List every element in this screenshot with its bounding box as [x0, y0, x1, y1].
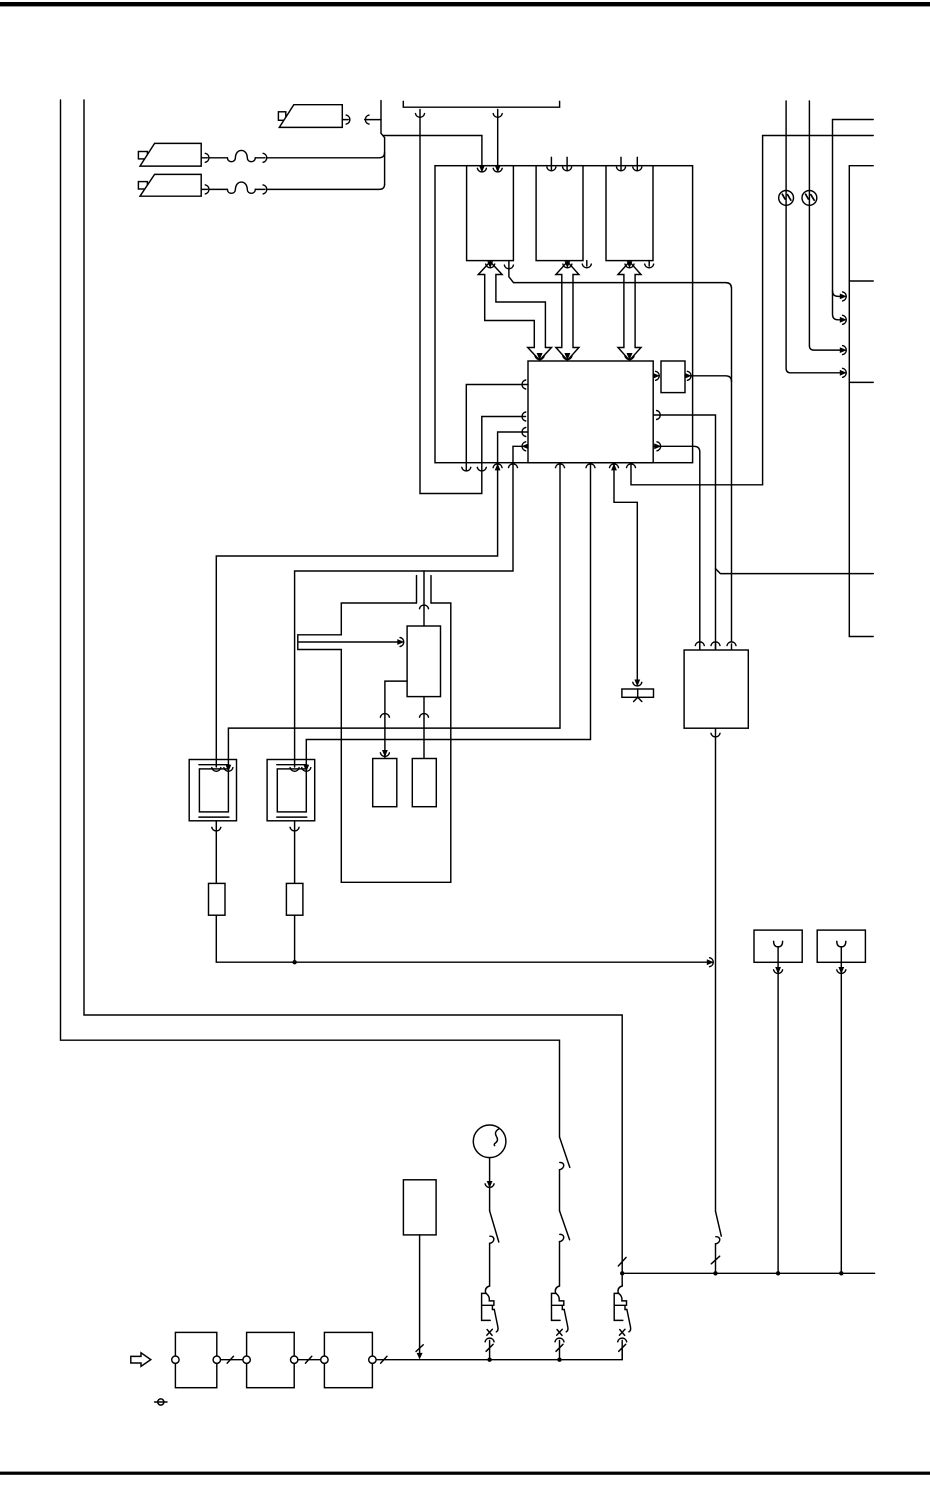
junction dots on ground bus: [487, 1358, 491, 1362]
wire: terminal 2 to lower bus: [840, 947, 842, 1273]
branch jog to page edge connector: [716, 569, 874, 574]
wire from horn H1: [210, 157, 228, 159]
wire: left rail 1 (battery feed, runs to ignition switch column): [61, 100, 560, 1137]
control cluster container: [435, 166, 693, 463]
bus arrow cell2 to ECU (hollow): [556, 262, 579, 361]
arrow into relay R1 pin b: [224, 763, 233, 770]
arrow on magneto wire: [485, 1181, 494, 1188]
fuse box cell 2: [536, 166, 583, 261]
horn H3 output arrow: [342, 119, 348, 121]
connector arrow at ECU right pin B: [654, 442, 661, 451]
alternator container with cable gland tongue and top chimney: [298, 603, 451, 882]
junction box J1: [175, 1332, 216, 1387]
arrow lock body wire onto ground bus: [417, 1353, 423, 1360]
wire: resistor 2 to common return: [294, 915, 296, 962]
ECU aux module box: [661, 361, 685, 393]
arrow on terminal 2 wire: [837, 967, 846, 974]
wire: terminal 1 to lower bus: [777, 947, 779, 1273]
arrow lamp L1 wire into instrument box: [840, 368, 847, 377]
arrow ECU to aux module: [653, 375, 656, 377]
stub output arrow below cell 2: [586, 261, 588, 266]
horn H1 output arrow: [201, 157, 207, 159]
arrows into relay R1 top (redrawn over fill): [216, 760, 228, 767]
arrow into terminal bar: [633, 680, 642, 687]
arrow into relay R2 pin b: [302, 763, 311, 770]
branch arrow into instrument box (upper): [833, 291, 842, 297]
wire: starter column junction to breaker 3: [621, 1273, 623, 1286]
antenna terminal block 1: [754, 930, 802, 962]
ground bus main run to starter column: [376, 1350, 622, 1360]
ECU main box: [528, 361, 653, 463]
arrows into fuse box cell 1 (redrawn over fill): [482, 166, 498, 171]
wire: resistor 1 to common return: [216, 915, 711, 962]
ballast resistor 1: [209, 883, 226, 915]
wire: ECU bottom pin 2 to relay R2 pin b: [306, 463, 590, 766]
boundary arrow ECU bottom pin 4: [627, 464, 636, 468]
switch S1 contact: [490, 1236, 494, 1243]
wire aux module output to harness drop: [685, 376, 732, 382]
page bottom border rule: [0, 1472, 930, 1475]
horn H2 body: [140, 174, 201, 196]
boundary arrow at container top (chimney): [420, 605, 429, 609]
arrow into regulator left: [397, 638, 404, 647]
stator resistor 2: [412, 759, 436, 807]
horn H3 connector tab: [278, 112, 285, 121]
wire from horn H2: [210, 188, 228, 190]
connector arrow at ECU left pin 3: [522, 428, 526, 437]
magneto winding squiggle: [494, 1129, 499, 1146]
connector arrow at ECU right pin A: [657, 411, 661, 420]
wire + connector arrow after fuse (horn H2): [255, 188, 265, 190]
wire: bracket drop 1 with arrow, down and around to ECU pin 2: [420, 110, 526, 494]
wire: ECU bottom pin 4 up right side to page edge: [631, 136, 873, 485]
tick J1-J2: [227, 1356, 233, 1363]
connector bracket above fuse box: [403, 101, 559, 107]
ground reference symbol: [158, 1399, 164, 1405]
arrows into fan motor unit top: [700, 644, 732, 650]
terminal cup 2: [837, 941, 846, 947]
fuse box cell 1: [467, 166, 514, 261]
arrow: jog wire into fuse box cell 1: [481, 136, 483, 171]
tick on starter column: [618, 1257, 626, 1266]
small output arrow below cell 3: [625, 261, 634, 268]
wire: switch S3 to lower bus: [715, 1244, 717, 1273]
stub output arrow below cell 1 right, jog to harness line: [509, 261, 732, 642]
wire: ECU right pin A to fan motor unit (with branch to page edge): [653, 415, 715, 649]
small output arrow below cell 2: [563, 261, 572, 268]
ground bus segment J1-J2: [221, 1359, 243, 1361]
indicator lamp L1 circuit wire: [786, 101, 842, 373]
arrow common return into fan motor drop: [707, 958, 714, 967]
boundary arrow relay R2 output: [290, 827, 299, 831]
terminal bar lower contact marks: [634, 697, 642, 701]
circuit breaker CB1: [482, 1286, 498, 1359]
terminal circles on junction boxes: [172, 1356, 179, 1363]
tick on lock body wire: [416, 1345, 423, 1352]
circuit breaker CB3: [614, 1286, 630, 1359]
switch S2 lower blade: [560, 1211, 570, 1240]
wire between switch S2 stages: [559, 1170, 561, 1211]
junction box J2: [247, 1332, 295, 1387]
connector arrow (mating side) on horn H3 wire: [365, 115, 369, 124]
terminal bar center pin: [637, 689, 639, 697]
ballast resistor 2: [286, 883, 303, 915]
page top border bar: [0, 2, 930, 6]
feed direction block arrow: [131, 1353, 151, 1367]
instrument cluster divider 1: [849, 280, 873, 282]
horn H1 body: [140, 143, 201, 166]
connector arrow at ECU left pin 4: [522, 442, 529, 451]
antenna terminal block 2: [817, 930, 865, 962]
horn relay R1 outer case: [189, 760, 236, 821]
wire horn H1 to junction: [267, 152, 384, 158]
instrument cluster box (clipped at page edge): [849, 166, 873, 637]
tip arrows of bus arrows at ECU top: [535, 353, 544, 360]
terminal cup 1: [774, 941, 783, 947]
circuit breaker CB2: [552, 1286, 568, 1359]
redraw tip arrows of bus arrows (over box fill): [535, 353, 544, 360]
wire: ECU left pin 1 (dead-ends below container): [466, 385, 528, 471]
boundary arrow where wire 2 leaves control cluster: [477, 467, 486, 471]
wire horn H2 to junction: [267, 184, 384, 189]
stator resistor 1: [373, 759, 397, 807]
indicator lamp L1: [779, 191, 794, 206]
horn H1 connector tab: [138, 152, 147, 159]
wire: switch S1 to breaker 1: [489, 1243, 491, 1286]
horn relay R2 inner core: [277, 769, 306, 812]
junction box J3: [324, 1332, 372, 1387]
wire: field coil lead inside tongue to regulator: [299, 641, 400, 643]
boundary arrow aux module output: [685, 371, 692, 380]
bus arrow cell3 to ECU (hollow): [618, 262, 641, 361]
indicator lamp L2: [802, 191, 817, 206]
wire: relay R1 output to ballast resistor: [215, 821, 217, 884]
wire: regulator top through chimney joining relay R2 line: [423, 571, 425, 626]
lower collector bus: [622, 1272, 874, 1274]
horn relay R1 inner core: [199, 769, 228, 812]
arrow on terminal 1 wire: [774, 967, 783, 974]
wire: ECU bottom pin 1 to relay R1 pin b: [228, 463, 560, 766]
arrow into relay R1 pin a: [212, 766, 221, 770]
horn H2 output arrow: [201, 188, 207, 190]
horn H2 connector tab: [138, 182, 147, 189]
terminal bar (ground strip): [622, 689, 654, 697]
fan motor unit box: [684, 650, 748, 728]
arrow into relay R2 pin a: [290, 766, 299, 770]
stub arrow b into cell 3: [636, 157, 638, 170]
wire: bracket drop 2 into fuse box cell 1: [497, 110, 499, 171]
switch S1 blade: [490, 1211, 499, 1242]
connector arrow at ECU left pin 1: [522, 380, 526, 389]
wire + connector arrow after fuse (horn H1): [255, 157, 265, 159]
fuse coil on horn H1 wire: [227, 150, 255, 161]
wire: ECU left pin 3 to horn relay R1: [216, 432, 528, 766]
connector arrow at ECU left pin 2: [522, 412, 526, 421]
ignition switch assembly rectangle (lock body): [403, 1180, 436, 1235]
boundary arrow fan motor output: [711, 733, 720, 737]
arrow lamp L2 wire into instrument box: [840, 346, 847, 355]
boundary arrow ECU bottom pin 2: [586, 464, 595, 468]
small output arrow below cell 1: [486, 261, 495, 268]
wire: ECU bottom pin 3 to terminal bar: [614, 463, 637, 683]
stub output arrow below cell 3: [648, 261, 650, 266]
wire: horn junction vertical with jog: [381, 101, 385, 185]
switch S2 upper contact: [560, 1162, 564, 1169]
instrument cluster divider 2: [849, 381, 873, 383]
wire: jog to fuse box F1 input: [384, 135, 482, 137]
junction: common return: [292, 960, 296, 964]
boundary arrow wire 3 (into container): [493, 463, 502, 470]
tick on fan motor drop: [711, 1256, 719, 1264]
fuse box cell 3: [606, 166, 653, 261]
wire: ECU right pin B to fan motor unit: [653, 446, 700, 648]
stub arrow b into cell 2: [566, 157, 568, 170]
wire: magneto to switch S1: [489, 1158, 491, 1211]
wire: left rail 2 (runs to starter switch column): [84, 100, 622, 1273]
wire: regulator left-bottom to stator resistor 1: [385, 681, 407, 758]
tick after J3: [381, 1356, 387, 1363]
wire: top right feed with corner at page edge: [833, 120, 874, 320]
arrow mark on stator wire 2: [420, 714, 429, 718]
horn relay R2 outer case: [267, 760, 315, 821]
regulator box: [407, 626, 440, 697]
wire: regulator bottom to stator resistor 2: [423, 697, 425, 758]
switch S3 contact: [716, 1237, 720, 1244]
switch S2 upper blade: [560, 1137, 570, 1167]
wire: ECU left pin 4 to horn relay R2: [295, 446, 528, 765]
wire: fan motor unit to switch S3: [715, 728, 717, 1211]
switch S2 lower contact: [560, 1234, 564, 1241]
stub arrow a into cell 2: [550, 157, 552, 170]
junction dots on lower collector bus: [620, 1271, 624, 1275]
switch S3 blade: [716, 1211, 722, 1236]
wire: lock body to ground bus: [419, 1235, 421, 1357]
tick J2-J3: [305, 1356, 311, 1363]
wire: switch S2 to breaker 2: [559, 1242, 561, 1286]
fuse coil on horn H2 wire: [227, 182, 255, 193]
boundary arrow ECU bottom pin 1: [556, 464, 565, 468]
ground bus segment J2-J3: [298, 1359, 321, 1361]
indicator lamp L2 circuit wire: [809, 101, 841, 350]
horn relay R2 coil lines: [277, 765, 307, 817]
boundary arrow wire 1: [462, 467, 471, 471]
magneto / AC generator: [473, 1125, 506, 1158]
boundary arrow relay R1 output: [212, 827, 221, 831]
boundary arrow ECU bottom pin 3: [610, 463, 619, 470]
arrows into relay R2 top (redrawn over fill): [295, 760, 307, 767]
wire: relay R2 output to ballast resistor 2: [294, 821, 296, 884]
horn relay R1 coil lines: [199, 765, 229, 817]
chimney side walls: [417, 576, 432, 603]
boundary arrow wire 4 (into container): [509, 464, 518, 468]
bus arrow cell1 to ECU (hollow, stepped): [478, 262, 551, 361]
stub arrow a into cell 3: [620, 157, 622, 170]
arrow into instrument box (second): [840, 315, 847, 324]
arrow marks on stator wire 1: [380, 714, 389, 718]
horn H3 body: [279, 105, 342, 128]
